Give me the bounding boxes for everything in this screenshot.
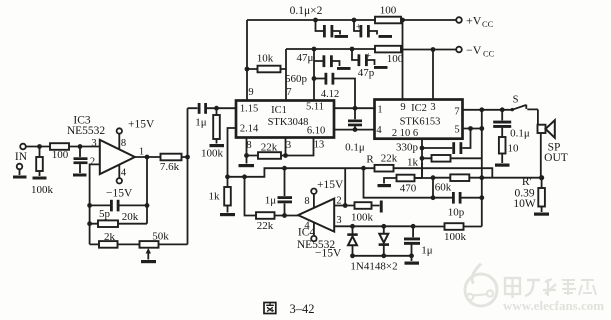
svg-text:0.1μ: 0.1μ (345, 142, 365, 154)
resistor 100k (input shunt) (31, 147, 54, 197)
wire x=286 vertical (-Vcc to IC1 pin7) (285, 49, 287, 101)
capacitor C (pin3 to ground) (73, 147, 88, 177)
capacitor C 47u (b) electrolytic (352, 49, 388, 79)
resistor 100k (IC4 pin2 gnd) (334, 201, 382, 224)
wire x=247 vertical (+Vcc to IC1 pin9) (245, 20, 250, 101)
resistor 10k (247, 53, 286, 73)
terminal IN signal (15, 144, 28, 163)
wire feedback vertical x=147 (145, 157, 150, 224)
svg-text:+15V: +15V (317, 179, 344, 191)
wire IC1 pin3 stub (283, 138, 288, 158)
svg-text:R: R (366, 154, 374, 166)
svg-text:CC: CC (482, 19, 494, 29)
op-amp U IC4 NE5532 (297, 196, 342, 252)
svg-text:2k: 2k (104, 231, 116, 243)
svg-text:4: 4 (304, 221, 310, 232)
capacitor C 0.1u (a) (316, 20, 349, 38)
resistor 2k (90, 231, 140, 248)
resistor R 22k (servo sense in) (366, 153, 397, 172)
wire +Vcc top rail (247, 19, 456, 21)
svg-text:3–42: 3–42 (290, 302, 315, 316)
svg-text:S: S (513, 95, 519, 106)
wire IC1 pin8 to ground / 22k row (244, 138, 249, 164)
wire diode bottom row (350, 253, 414, 258)
svg-text:+V: +V (466, 14, 482, 28)
wire IC4 pin2 vertical (343, 168, 348, 208)
svg-text:+: + (366, 51, 371, 61)
wire feedback vertical x=187.5 (187, 108, 189, 244)
svg-text:8: 8 (304, 196, 309, 207)
svg-text:6.10: 6.10 (307, 126, 325, 137)
wire 60k row (415, 175, 485, 180)
capacitor C 0.1u (b) electrolytic (354, 20, 392, 38)
svg-text:3: 3 (430, 102, 435, 113)
svg-text:CC: CC (483, 49, 495, 59)
svg-text:4: 4 (121, 168, 127, 179)
resistor 470 (378, 163, 423, 195)
watermark text (503, 278, 604, 313)
wire IC2 pin3 to -Vcc (432, 50, 434, 100)
wire -Vcc rail (286, 48, 456, 51)
svg-text:0.1μ×2: 0.1μ×2 (290, 5, 323, 17)
capacitor C 1u (coupling to IC1) (188, 103, 237, 129)
resistor 60k (435, 174, 470, 193)
svg-text:www.elecfans.com: www.elecfans.com (503, 298, 604, 313)
svg-text:22k: 22k (261, 142, 278, 154)
wire IC4 pin3 row (334, 224, 415, 229)
svg-text:100: 100 (380, 5, 397, 17)
svg-text:−15V: −15V (315, 248, 342, 260)
svg-text:+: + (356, 22, 361, 32)
capacitor C 0.1u zobel (493, 110, 530, 140)
capacitor C 0.1u (interstage) (345, 108, 365, 153)
svg-text:50k: 50k (152, 231, 169, 243)
svg-text:100: 100 (52, 149, 69, 161)
wire x=481.8 vertical (output sense) (481, 110, 483, 227)
wire IC2 pin9 to +Vcc (402, 20, 404, 100)
wire x=363.5 down to 10p row (364, 168, 434, 198)
svg-text:1μ: 1μ (265, 195, 277, 207)
op-amp-module U IC1 STK3048 box (236, 101, 334, 138)
svg-text:330p: 330p (396, 142, 419, 154)
svg-text:10: 10 (508, 143, 520, 155)
resistor 1k (IC2 fb) (407, 155, 482, 169)
svg-text:STK6153: STK6153 (400, 117, 441, 128)
wire x=314 vertical (-Vcc to IC1 pin4.12) (312, 49, 317, 101)
capacitor C 47u (a) (314, 55, 351, 70)
svg-text:100k: 100k (31, 184, 54, 196)
resistor 22k (servo out) (245, 177, 299, 232)
svg-text:7: 7 (286, 87, 291, 98)
svg-text:100: 100 (387, 53, 404, 65)
diode D1 1N4148 (347, 226, 357, 256)
capacitor C 330p (396, 129, 471, 155)
svg-text:1μ: 1μ (195, 117, 207, 129)
svg-text:10p: 10p (448, 207, 465, 219)
resistor 100k (servo sense) (413, 223, 482, 243)
wire IC3 pin2 (90, 164, 100, 244)
svg-text:10k: 10k (257, 53, 274, 65)
terminal +15V (IC3 pin8) (117, 119, 155, 150)
svg-text:22k: 22k (381, 153, 398, 165)
pin labels IC1 bottom (246, 140, 324, 152)
svg-text:1k: 1k (407, 157, 419, 169)
label 0.1u x2 (290, 5, 323, 17)
resistor 100k (IC1 input bias) (201, 108, 224, 159)
resistor 100 (+Vcc rail) (375, 5, 401, 24)
svg-text:IC2: IC2 (411, 103, 427, 114)
wire IC2 pin5 (463, 126, 485, 131)
op-amp-module U IC2 STK6153 box (375, 100, 463, 140)
node rail junction dots top (313, 18, 405, 23)
svg-text:5p: 5p (99, 208, 111, 220)
svg-text:1: 1 (139, 147, 144, 158)
svg-text:2: 2 (90, 157, 95, 168)
svg-text:IC1: IC1 (271, 105, 287, 116)
terminal -Vcc (456, 43, 494, 59)
svg-text:OUT: OUT (544, 152, 568, 164)
svg-text:1.15: 1.15 (240, 104, 258, 115)
watermark logo (465, 264, 497, 307)
svg-text:3: 3 (286, 140, 291, 151)
resistor 7.6k (160, 154, 182, 173)
svg-text:9: 9 (400, 102, 405, 113)
resistor R' 0.39 10W (513, 176, 549, 216)
svg-text:2.14: 2.14 (240, 124, 259, 135)
wire output to R' junction (482, 175, 544, 180)
svg-text:7.6k: 7.6k (160, 161, 180, 173)
wire IC1 6.10 to IC2 pin4 (334, 127, 375, 132)
wire x=433 vertical (431, 178, 436, 200)
speaker SP OUT (538, 109, 568, 177)
capacitor C 1u (servo filter) (404, 226, 433, 264)
label figure caption (264, 302, 315, 316)
svg-text:13: 13 (314, 140, 325, 151)
capacitor C 1u (servo integrator) (265, 168, 292, 218)
terminal -15V (IC4 pin4) (311, 223, 342, 260)
capacitor C 560p (285, 73, 355, 108)
terminal +15V (IC4 pin8) (311, 179, 344, 208)
svg-text:20k: 20k (122, 211, 139, 223)
resistor 22k (IC1 pin3) (247, 138, 314, 159)
svg-text:2 10 6: 2 10 6 (392, 128, 418, 139)
svg-text:STK3048: STK3048 (268, 117, 309, 128)
svg-text:10W: 10W (513, 198, 536, 210)
svg-text:NE5532: NE5532 (67, 125, 106, 137)
svg-text:3: 3 (91, 138, 96, 149)
resistor 100 (input) (50, 143, 100, 161)
terminal IN ground (13, 164, 27, 179)
capacitor C 5p feedback (87, 200, 147, 220)
svg-text:R′: R′ (522, 176, 532, 188)
terminal -15V (IC3 pin4) (106, 165, 133, 200)
svg-text:0.1μ: 0.1μ (510, 128, 530, 140)
svg-text:1k: 1k (209, 191, 221, 203)
svg-text:4: 4 (376, 125, 382, 136)
capacitor C 10p (433, 192, 484, 219)
svg-text:1N4148×2: 1N4148×2 (350, 261, 397, 273)
diode D2 1N4148 (350, 226, 397, 272)
svg-text:47p: 47p (358, 67, 375, 79)
svg-text:7: 7 (454, 107, 459, 118)
wire IC3 output (135, 155, 190, 160)
wire servo top run y=168 (242, 166, 492, 179)
wire IC2 pin7 output (463, 107, 513, 112)
svg-text:1μ: 1μ (421, 245, 433, 257)
svg-text:47μ: 47μ (297, 52, 314, 64)
op-amp U IC3 NE5532 (67, 115, 144, 179)
potentiometer 50k (140, 231, 188, 264)
node rail junction dots row2 (312, 47, 436, 52)
svg-text:−V: −V (466, 43, 482, 57)
svg-text:22k: 22k (257, 220, 274, 232)
wire IC1 5.11 to IC2 pin1 (334, 106, 375, 111)
svg-text:100k: 100k (351, 212, 374, 224)
svg-text:60k: 60k (435, 182, 452, 194)
svg-text:+15V: +15V (128, 119, 155, 131)
svg-text:3: 3 (336, 215, 341, 226)
wire pin2.14 node to servo (228, 176, 245, 178)
ground (IC1 pin8) (239, 164, 255, 167)
wire IC1 pin 2.14 (225, 128, 236, 179)
svg-text:1: 1 (377, 105, 382, 116)
svg-text:5.11: 5.11 (306, 102, 324, 113)
resistor 20k feedback (87, 211, 147, 227)
svg-text:4.12: 4.12 (321, 89, 339, 100)
wire IN to 100 (26, 144, 50, 149)
resistor 10 zobel (495, 128, 519, 167)
wire IC2 pin6 down (420, 139, 425, 178)
label 47u (297, 52, 314, 64)
resistor 100 (-Vcc rail) (375, 46, 404, 65)
svg-text:100k: 100k (201, 148, 224, 160)
switch S (511, 95, 538, 112)
svg-text:5: 5 (454, 125, 459, 136)
svg-text:560p: 560p (285, 73, 308, 85)
svg-text:9: 9 (248, 87, 253, 98)
svg-text:100k: 100k (444, 231, 467, 243)
svg-text:IN: IN (15, 151, 28, 163)
pin labels IC1 top (248, 87, 339, 100)
terminal +Vcc (456, 14, 493, 30)
svg-text:470: 470 (400, 183, 417, 195)
svg-text:−15V: −15V (106, 188, 133, 200)
svg-text:8: 8 (121, 138, 126, 149)
resistor 1k (servo injection) (209, 177, 236, 216)
